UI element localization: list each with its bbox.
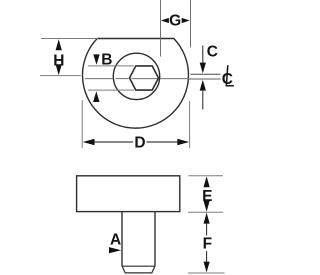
svg-text:H: H xyxy=(53,52,64,69)
svg-text:A: A xyxy=(110,231,121,248)
extension line: disc centerline right (C upper) xyxy=(191,73,221,75)
dimension D xyxy=(83,134,189,151)
extension line: stud bottom (F bottom) xyxy=(188,272,225,274)
side view: disc body rectangle xyxy=(77,176,180,212)
counterbore circle xyxy=(113,53,159,99)
extension line: counterbore right edge (G left) xyxy=(160,0,162,57)
label A with leader arrow xyxy=(109,231,121,253)
svg-text:D: D xyxy=(134,134,145,151)
extension line: rect top (E top) xyxy=(189,175,224,177)
svg-text:C: C xyxy=(207,44,218,61)
dimension E xyxy=(202,176,212,211)
extension line: hex bottom flat (B) xyxy=(88,89,134,91)
top view: eccentric disc outline with flat top xyxy=(83,39,189,129)
extension line: flat top (H top) xyxy=(41,38,98,40)
dimension C leader and arrows xyxy=(200,44,218,110)
dimension F xyxy=(203,213,212,273)
extension line: hex top flat (B) xyxy=(88,65,134,67)
hex socket xyxy=(130,66,159,90)
extension line: disc centerline left (H bottom) xyxy=(40,75,81,77)
svg-text:F: F xyxy=(203,235,212,252)
dimension B with arrows xyxy=(93,52,112,103)
extension line: disc right edge (D right) xyxy=(189,101,191,148)
extension line: disc left edge (D left) xyxy=(81,100,83,148)
svg-text:G: G xyxy=(169,12,181,29)
extension line: disc right edge (G right) xyxy=(190,0,192,48)
centre line symbol xyxy=(222,65,234,88)
side view: stud/shank xyxy=(122,212,155,273)
extension line: rect bottom (E bottom / F top) xyxy=(188,211,223,213)
dimension G xyxy=(161,12,190,29)
hex centerline xyxy=(85,78,113,80)
dimension H xyxy=(53,39,64,75)
